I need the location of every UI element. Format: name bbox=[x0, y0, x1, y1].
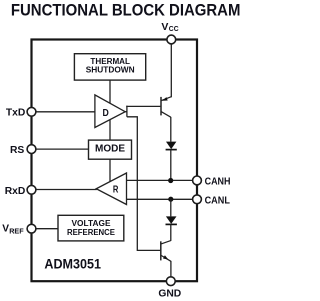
diode D1 to CANH bbox=[166, 142, 177, 181]
wire Vcc rail bbox=[170, 40, 172, 98]
label CANL bbox=[205, 196, 230, 207]
IC boundary box ADM3051 bbox=[32, 40, 198, 282]
wire VREF to voltage reference bbox=[32, 228, 59, 230]
svg-text:R: R bbox=[113, 184, 119, 195]
wire driver to MODE bbox=[109, 119, 111, 140]
box thermal shutdown bbox=[74, 54, 145, 80]
pin TxD bbox=[27, 107, 36, 116]
label Vcc bbox=[161, 21, 179, 33]
svg-text:REF: REF bbox=[9, 227, 24, 236]
pin Vcc bbox=[167, 35, 176, 44]
wire driver to Q1 base bbox=[126, 105, 160, 107]
junction CANL bbox=[168, 197, 173, 202]
wire MODE to receiver bbox=[109, 159, 111, 181]
svg-text:MODE: MODE bbox=[95, 144, 125, 155]
title FUNCTIONAL BLOCK DIAGRAM bbox=[11, 0, 241, 19]
pin CANH bbox=[193, 176, 202, 185]
wire TxD to driver input bbox=[32, 111, 95, 113]
svg-text:RS: RS bbox=[10, 145, 24, 156]
label CANH bbox=[205, 177, 231, 188]
svg-text:REFERENCE: REFERENCE bbox=[67, 227, 115, 237]
label TxD bbox=[6, 108, 25, 119]
op-amp receiver R bbox=[96, 173, 126, 205]
label VREF bbox=[2, 223, 24, 235]
svg-text:GND: GND bbox=[158, 289, 181, 300]
pin RxD bbox=[27, 185, 36, 194]
pin RS bbox=[27, 145, 36, 154]
svg-text:ADM3051: ADM3051 bbox=[44, 256, 101, 272]
svg-text:CANH: CANH bbox=[205, 177, 231, 188]
wire driver to Q2 base bbox=[127, 117, 160, 251]
junction CANH bbox=[168, 178, 173, 183]
wire CANH line bbox=[127, 179, 198, 181]
box voltage reference bbox=[58, 215, 124, 241]
label ADM3051 bbox=[44, 256, 101, 272]
label GND bbox=[158, 289, 181, 300]
svg-text:TxD: TxD bbox=[6, 108, 25, 119]
svg-text:RxD: RxD bbox=[5, 186, 26, 197]
svg-text:CC: CC bbox=[169, 24, 179, 33]
pin CANL bbox=[193, 195, 202, 204]
box MODE bbox=[89, 140, 132, 159]
svg-text:FUNCTIONAL BLOCK DIAGRAM: FUNCTIONAL BLOCK DIAGRAM bbox=[11, 0, 241, 19]
svg-text:V: V bbox=[161, 21, 168, 33]
wire RxD to receiver output bbox=[32, 189, 97, 191]
diode D2 from CANL bbox=[166, 199, 177, 241]
wire CANL line bbox=[127, 198, 198, 200]
transistor Q2 NPN low-side bbox=[161, 241, 171, 282]
wire RS to MODE bbox=[32, 148, 89, 150]
svg-text:CANL: CANL bbox=[205, 196, 230, 207]
pin GND bbox=[166, 277, 175, 286]
label RS bbox=[10, 145, 24, 156]
svg-text:D: D bbox=[103, 108, 109, 119]
wire thermal shutdown to driver bbox=[109, 80, 111, 103]
label RxD bbox=[5, 186, 26, 197]
svg-text:SHUTDOWN: SHUTDOWN bbox=[86, 64, 135, 74]
pin VREF bbox=[27, 224, 36, 233]
op-amp driver D bbox=[95, 95, 125, 128]
transistor Q1 PNP high-side bbox=[161, 97, 171, 142]
wire driver output vertical bbox=[125, 106, 127, 117]
